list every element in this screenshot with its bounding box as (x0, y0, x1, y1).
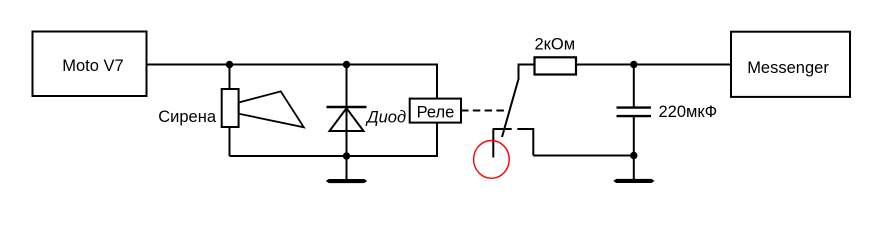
switch S1 right contact bar (517, 128, 533, 130)
wire bottom right from switch to capacitor (533, 155, 634, 157)
ground symbol left (327, 179, 367, 182)
highlight circle (red) around open contact (474, 141, 510, 179)
wire bottom rail from siren to relay drop (230, 155, 438, 157)
svg-text:220мкФ: 220мкФ (659, 103, 718, 121)
wire ground lead below diode (346, 156, 348, 180)
siren horn (239, 91, 304, 127)
svg-text:Сирена: Сирена (158, 108, 217, 126)
resistor R1 2kOhm body (535, 57, 577, 74)
junction siren top (226, 61, 233, 68)
svg-text:Moto V7: Moto V7 (62, 57, 123, 75)
switch S1 top lead (518, 64, 520, 81)
junction diode bottom (343, 152, 350, 159)
svg-text:2кОм: 2кОм (535, 36, 576, 54)
device box Messenger (731, 32, 850, 97)
ground symbol right (614, 179, 654, 182)
diode D1 triangle (330, 108, 364, 131)
junction diode top (343, 61, 350, 68)
wire siren top lead (229, 65, 231, 90)
svg-text:Реле: Реле (417, 104, 455, 122)
device box Moto V7 (33, 32, 147, 97)
wire switch top to resistor (518, 64, 535, 66)
diode D1 cathode bar (327, 106, 367, 108)
capacitor C1 top lead (633, 65, 635, 107)
switch S1 left contact bar (493, 128, 512, 130)
capacitor C1 bottom plate (617, 115, 652, 117)
wire resistor to Messenger (576, 64, 731, 66)
dashed mechanical link from relay to switch (461, 110, 508, 112)
diode D1 vertical lead (346, 65, 348, 157)
wire top rail from Moto V7 to relay drop (147, 64, 438, 66)
wire siren bottom lead (229, 127, 231, 156)
relay box Реле (410, 99, 461, 123)
junction capacitor top (630, 61, 637, 68)
wire switch right contact down (532, 128, 534, 156)
wire vertical rise to relay bottom (436, 123, 438, 157)
switch S1 left contact stub (492, 129, 494, 158)
wire vertical drop to relay top (436, 64, 438, 99)
svg-text:Диод: Диод (365, 109, 406, 127)
junction capacitor bottom (630, 152, 637, 159)
capacitor C1 top plate (617, 106, 652, 108)
switch S1 lever (502, 79, 519, 137)
wire ground lead below capacitor (633, 156, 635, 180)
svg-text:Messenger: Messenger (747, 59, 829, 77)
siren body rectangle (222, 89, 239, 127)
capacitor C1 bottom lead (633, 117, 635, 156)
